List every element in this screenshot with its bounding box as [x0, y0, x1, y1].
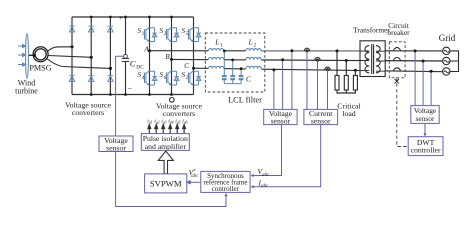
LCL dashed box	[205, 33, 264, 92]
svg-text:controller: controller	[212, 185, 240, 193]
filter cap branch C	[239, 69, 244, 84]
rectifier leg 1	[71, 17, 73, 95]
grid voltage sensor taps	[415, 51, 431, 106]
svg-text:sensor: sensor	[311, 117, 331, 126]
voltage sensor (grid side) box	[264, 109, 297, 125]
coil masks	[208, 49, 261, 70]
wind turbine blade	[26, 34, 29, 79]
inverter leg 2	[171, 17, 173, 95]
svg-text:−: −	[128, 85, 133, 94]
voltage sensor (dc link) box	[99, 136, 133, 153]
IGBT S1	[145, 27, 157, 42]
grid source a	[443, 47, 450, 54]
voltage sensor (grid) box	[411, 106, 439, 124]
svg-text:breaker: breaker	[387, 28, 410, 37]
gate signal labels	[147, 119, 187, 125]
inverter leg 1	[149, 17, 151, 95]
DWT controller box	[408, 137, 443, 156]
voltage sensor taps	[274, 51, 292, 110]
inverter top dots	[148, 16, 173, 96]
breaker pole b	[394, 58, 401, 61]
generator PMSG	[33, 47, 48, 62]
wire Vabc	[253, 125, 282, 176]
inductor L2b	[246, 57, 261, 59]
svg-text:turbine: turbine	[15, 87, 38, 96]
phase line A	[150, 50, 444, 52]
transformer box	[360, 41, 385, 77]
IGBT S4	[145, 71, 157, 86]
stator wire c	[47, 59, 111, 69]
DC link capacitor line	[125, 17, 127, 55]
SVPWM box	[145, 174, 187, 193]
stator wire b	[48, 56, 91, 58]
trip cross	[395, 79, 399, 83]
svg-text:L: L	[248, 38, 253, 47]
svg-text:SVPWM: SVPWM	[150, 179, 182, 189]
transformer core	[371, 44, 373, 74]
transformer primary winding	[360, 51, 369, 71]
arrow Vabc* sync to SVPWM	[187, 181, 201, 184]
svg-text:sensor: sensor	[271, 117, 291, 126]
pulse isolation and amplifier box	[141, 134, 189, 151]
wind arrow 1	[18, 44, 26, 47]
svg-text:controller: controller	[411, 146, 441, 155]
svg-text:DC: DC	[136, 64, 144, 70]
dc sense wire to voltage sensor	[116, 56, 124, 136]
svg-text:sensor: sensor	[106, 144, 126, 153]
shaft	[29, 54, 36, 57]
junction dots rectifier	[70, 16, 112, 96]
wire Iabc	[253, 125, 321, 187]
svg-text:+: +	[119, 13, 123, 22]
block arrow SVPWM to pulse isolation	[158, 151, 173, 174]
inductor L2c	[246, 66, 261, 68]
breaker pole c	[394, 68, 401, 71]
svg-text:C: C	[184, 61, 189, 70]
inductor L1c	[209, 66, 224, 68]
svg-text:converters: converters	[72, 108, 104, 117]
inductor L2a	[246, 49, 261, 51]
gate arrows	[148, 125, 186, 134]
rectifier leg 3	[109, 17, 111, 95]
svg-text:LCL filter: LCL filter	[228, 96, 262, 105]
inductor L1a	[209, 49, 224, 51]
wire left voltage sensor to sync controller bottom	[116, 152, 226, 207]
filter cap branch B	[230, 60, 235, 84]
svg-text:and amplifier: and amplifier	[145, 142, 187, 151]
critical load tap 1	[336, 51, 338, 76]
dc link dots	[124, 16, 127, 96]
breaker trip dashed line	[397, 78, 408, 147]
grid source b	[443, 57, 450, 64]
current sensor box	[304, 109, 338, 125]
grid bus	[450, 51, 459, 72]
IGBT S5	[189, 27, 201, 42]
filter cap bus	[224, 83, 241, 85]
critical load tap 2	[345, 61, 347, 76]
svg-text:B: B	[165, 52, 170, 61]
svg-text:L: L	[214, 38, 219, 47]
grid source c	[443, 68, 450, 75]
wind arrow 2	[18, 53, 26, 56]
rectifier top bus	[72, 16, 194, 18]
node O below inverter	[170, 98, 175, 103]
transformer secondary winding	[376, 51, 385, 71]
stator wire a	[47, 47, 72, 52]
critical load bottom bus	[337, 90, 355, 93]
svg-text:C: C	[130, 59, 136, 69]
svg-text:Transformer: Transformer	[353, 26, 390, 35]
phase tap dots	[148, 49, 195, 69]
inductor L1b	[209, 57, 224, 59]
svg-text:A: A	[143, 45, 149, 54]
breaker pole a	[394, 48, 401, 51]
inverter leg 3	[193, 17, 195, 95]
rectifier bottom bus	[72, 94, 194, 96]
wind arrow 3	[18, 63, 26, 66]
svg-text:1: 1	[142, 32, 145, 37]
svg-text:Grid: Grid	[439, 33, 456, 43]
svg-text:sensor: sensor	[416, 114, 435, 123]
filter cap dots	[223, 50, 243, 71]
S labels top row	[138, 27, 189, 37]
rectifier diodes top	[69, 26, 113, 32]
phase line C	[194, 68, 444, 72]
circuit breaker dashed box	[389, 42, 405, 78]
critical load resistors	[335, 76, 357, 91]
IGBT S6	[167, 71, 179, 86]
rectifier leg 2	[90, 17, 92, 95]
arrow sensor to DWT	[424, 123, 426, 134]
rectifier diodes bottom	[69, 76, 113, 82]
IGBT S3	[167, 27, 179, 42]
node circle on cap	[124, 54, 128, 58]
svg-text:PMSG: PMSG	[29, 64, 51, 73]
critical load tap 3	[354, 70, 356, 75]
filter cap branch A	[222, 51, 227, 84]
svg-text:converters: converters	[163, 109, 195, 118]
svg-text:load: load	[342, 109, 356, 118]
capacitor CDC plates	[122, 58, 129, 60]
svg-text:C: C	[246, 75, 251, 84]
S labels bottom row	[138, 71, 189, 81]
synchronous reference frame controller box	[201, 171, 250, 193]
phase line B	[172, 59, 444, 61]
IGBT S2	[189, 71, 201, 86]
current transformer taps	[304, 48, 330, 70]
